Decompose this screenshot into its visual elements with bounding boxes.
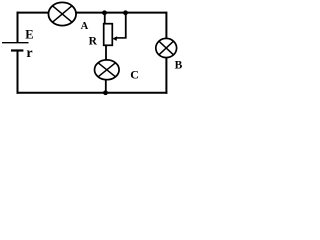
svg-text:R: R — [89, 35, 98, 47]
wire lamp C to bottom — [105, 80, 107, 93]
battery long plate (positive) — [2, 42, 29, 44]
lamp A — [48, 2, 76, 25]
node junction dot left — [102, 10, 107, 15]
svg-text:C: C — [130, 67, 139, 81]
lamp B — [156, 38, 177, 57]
wire left border lower — [17, 51, 19, 94]
wire dot1 to resistor top — [104, 13, 106, 24]
wire resistor bottom to lamp C — [105, 45, 107, 60]
lamp C — [95, 60, 120, 80]
svg-text:B: B — [175, 59, 183, 71]
node junction dot bottom — [103, 90, 108, 95]
wire right border upper — [165, 12, 167, 39]
svg-text:r: r — [26, 46, 32, 61]
battery short plate (negative) — [11, 49, 23, 51]
wire wiper vertical from dot2 — [125, 13, 127, 38]
node junction dot right — [123, 10, 128, 15]
wire bottom — [17, 92, 168, 94]
svg-text:A: A — [81, 21, 89, 32]
wire wiper horizontal — [115, 37, 127, 39]
wire left border upper — [17, 12, 19, 43]
resistor R body — [104, 24, 113, 46]
svg-text:E: E — [25, 28, 33, 42]
wire right border lower — [165, 57, 167, 94]
wire top-middle segment — [76, 12, 166, 14]
wiper arrowhead — [112, 36, 117, 41]
wire top-left segment — [17, 12, 50, 14]
